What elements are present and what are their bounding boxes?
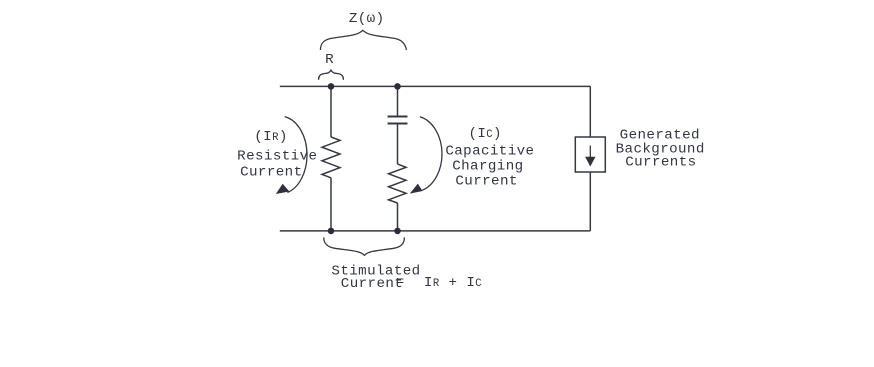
node top-left junction xyxy=(328,83,335,90)
svg-text:Current: Current xyxy=(341,276,403,292)
svg-text:Current: Current xyxy=(240,165,302,181)
wire middle branch lower xyxy=(397,203,399,231)
wire middle branch upper xyxy=(397,86,399,115)
svg-text:Capacitive: Capacitive xyxy=(445,144,534,160)
arrow arc IR (left curved arrow) xyxy=(285,117,307,193)
wire left branch lower xyxy=(330,178,332,231)
svg-text:Resistive: Resistive xyxy=(237,149,317,165)
node bottom-left junction xyxy=(328,228,335,235)
capacitor C1 bottom plate xyxy=(388,123,408,125)
brace R overbrace xyxy=(319,70,344,80)
svg-text:Charging: Charging xyxy=(452,159,523,175)
svg-text:(IC): (IC) xyxy=(468,126,502,142)
node top-mid junction xyxy=(394,83,401,90)
bottom wire xyxy=(280,230,591,232)
arrow arc IC (middle curved arrow) xyxy=(420,117,442,191)
wire right branch lower xyxy=(589,172,591,231)
svg-text:(IR): (IR) xyxy=(254,129,288,145)
svg-text:R: R xyxy=(325,52,334,68)
node bottom-mid junction xyxy=(394,228,401,235)
svg-text:Z(ω): Z(ω) xyxy=(349,11,385,27)
wire right branch upper xyxy=(589,86,591,137)
svg-text:=: = xyxy=(396,275,405,291)
wire middle branch middle xyxy=(397,125,399,165)
resistor R1 (resistive branch) xyxy=(322,137,340,178)
svg-text:Currents: Currents xyxy=(625,155,696,171)
current source I1 arrow xyxy=(589,146,591,160)
svg-text:Current: Current xyxy=(455,174,517,190)
svg-text:IR + IC: IR + IC xyxy=(424,275,482,291)
wire left branch upper xyxy=(330,86,332,137)
top wire xyxy=(280,85,591,87)
current source I1 box xyxy=(575,137,605,172)
capacitor C1 top plate xyxy=(388,116,408,118)
brace Z(w) overbrace xyxy=(320,30,406,50)
brace stimulated-current underbrace xyxy=(324,237,405,255)
resistor R2 (capacitive branch) xyxy=(389,164,407,203)
